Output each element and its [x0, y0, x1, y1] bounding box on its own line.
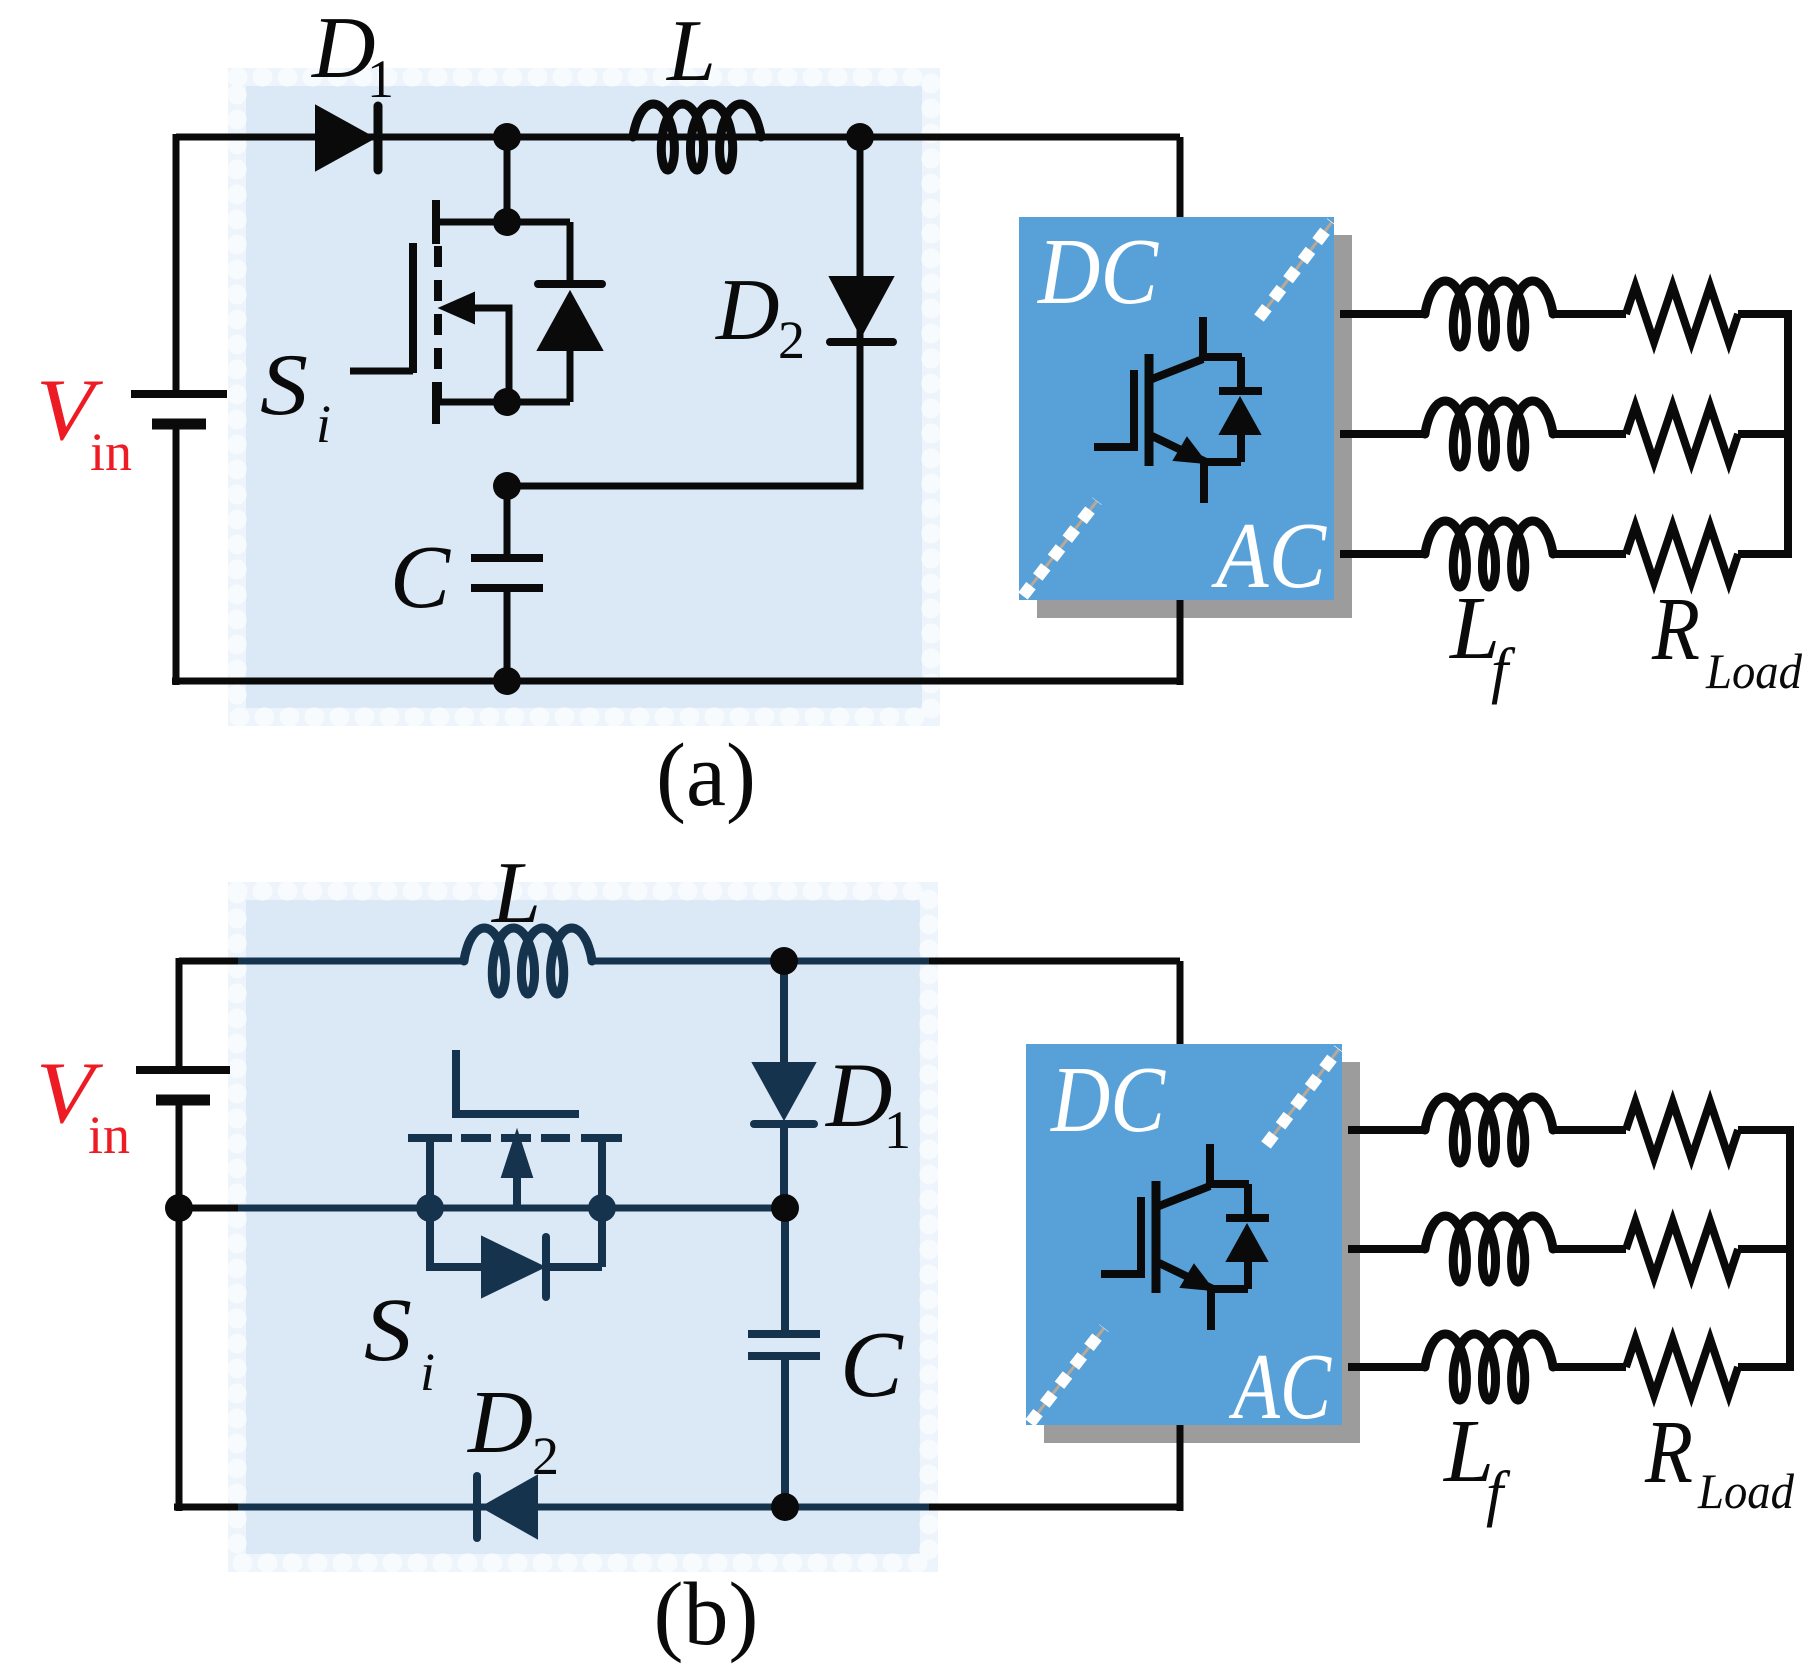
IGBT (a) gate bar: [1130, 370, 1138, 451]
DC/AC block (b): [1026, 1044, 1342, 1425]
wire top rail (a): [176, 134, 1180, 141]
svg-text:D: D: [311, 0, 376, 97]
wire left rail upper (a): [173, 134, 180, 391]
IGBT (a) freewheel diode: [1237, 357, 1245, 388]
node junction Si right contact (b): [588, 1194, 616, 1222]
MOSFET Si (b) body arrow: [502, 1131, 532, 1177]
svg-text:in: in: [90, 422, 132, 482]
svg-text:1: 1: [884, 1100, 911, 1160]
svg-text:D: D: [824, 1044, 892, 1146]
node junctions (a): [493, 123, 521, 151]
svg-text:S: S: [260, 337, 308, 434]
svg-text:(b): (b): [654, 1565, 759, 1664]
DC/AC dashed corner top-right (a): [1259, 222, 1332, 318]
MOSFET Si (a) drain stub: [504, 137, 511, 222]
three-phase wires (b): [1348, 1126, 1425, 1134]
svg-text:R: R: [1644, 1403, 1693, 1502]
svg-text:C: C: [390, 528, 451, 627]
svg-text:in: in: [88, 1105, 130, 1165]
DC/AC block shadow (b): [1044, 1062, 1360, 1443]
svg-text:(a): (a): [656, 726, 756, 825]
wire DC link top (b): [1177, 961, 1184, 1048]
IGBT (b) freewheel diode: [1244, 1184, 1252, 1215]
MOSFET Si (b) dashed channel: [461, 1134, 570, 1142]
svg-text:2: 2: [778, 310, 805, 370]
svg-text:L: L: [490, 845, 541, 942]
wire DC link bottom (a): [1177, 598, 1184, 685]
battery Vin long plate (a): [131, 390, 227, 398]
svg-text:S: S: [364, 1281, 412, 1380]
body diode of Si (a): [567, 222, 574, 286]
MOSFET Si (b) body diode loop: [430, 1208, 484, 1267]
capacitor C (a): [471, 554, 543, 562]
svg-text:Load: Load: [1697, 1463, 1795, 1519]
MOSFET Si (a) dashed channel: [434, 246, 442, 404]
IGBT (b) gate bar: [1137, 1197, 1145, 1278]
load star bus (a): [1784, 310, 1792, 558]
IGBT (b) gate lead: [1101, 1270, 1141, 1278]
diode D2 branch wire (a): [507, 137, 860, 486]
svg-text:1: 1: [367, 49, 394, 109]
battery Vin long plate (b): [136, 1066, 230, 1074]
svg-text:L: L: [665, 3, 716, 100]
DC/AC block shadow (a): [1037, 235, 1352, 618]
IGBT (b) emitter: [1159, 1263, 1211, 1330]
MOSFET Si (a) top link wire: [433, 219, 570, 226]
IGBT (a) body bar: [1145, 354, 1154, 466]
DC/AC dashed corner bottom-left (b): [1030, 1328, 1104, 1423]
MOSFET Si (a) gate bar: [409, 243, 417, 373]
inductor L (a): [633, 104, 761, 170]
svg-text:Load: Load: [1705, 643, 1803, 699]
diode D1 (b): [780, 961, 788, 1066]
svg-text:AC: AC: [1228, 1335, 1332, 1439]
DC/AC dashed corner top-right (b): [1266, 1049, 1339, 1145]
svg-text:i: i: [316, 394, 331, 454]
svg-text:i: i: [420, 1342, 435, 1402]
wire left rail (b): [176, 958, 183, 1067]
IGBT (b) collector lead: [1210, 1144, 1249, 1184]
node junctions (b): [165, 1194, 193, 1222]
node junction Si left contact (b): [416, 1194, 444, 1222]
svg-text:AC: AC: [1211, 504, 1328, 608]
diode D2 (a): [830, 277, 893, 336]
wire node B to capacitor (a): [504, 486, 511, 558]
svg-text:DC: DC: [1049, 1048, 1166, 1152]
capacitor C (b): [781, 1208, 789, 1331]
MOSFET Si (a) body arrow: [440, 293, 474, 323]
IGBT (a) emitter: [1152, 436, 1204, 503]
diode D1 (a): [316, 106, 374, 170]
MOSFET Si (b) left contact: [408, 1134, 452, 1142]
IGBT (a) gate lead: [1094, 443, 1134, 451]
wire bottom rail (b): [174, 1504, 240, 1511]
MOSFET Si (a) bottom link wire: [433, 399, 570, 406]
wire left rail lower (a): [173, 428, 180, 685]
load star bus (b): [1786, 1126, 1794, 1371]
wire top rail (b) black parts: [179, 958, 240, 965]
MOSFET Si (b) gate lead: [456, 1050, 579, 1114]
converter cell shaded box (b): [237, 891, 929, 1563]
wire DC link bottom (b): [1177, 1425, 1184, 1511]
IGBT (a) collector lead: [1203, 317, 1242, 357]
DC/AC block (a): [1019, 217, 1334, 600]
MOSFET Si (b) right contact: [581, 1134, 622, 1142]
wire top rail (b) navy parts: [238, 958, 464, 965]
svg-text:R: R: [1651, 580, 1700, 679]
svg-text:D: D: [466, 1373, 533, 1472]
wire middle rail (b): [179, 1205, 240, 1212]
svg-text:DC: DC: [1036, 220, 1159, 324]
three-phase wires (a): [1340, 310, 1425, 318]
svg-text:D: D: [715, 262, 780, 359]
MOSFET Si (a) source contact bar: [432, 382, 440, 424]
svg-text:2: 2: [532, 1426, 559, 1486]
inductor L (b): [464, 928, 592, 994]
wire bottom rail (a): [172, 678, 1180, 685]
DC/AC dashed corner bottom-left (a): [1023, 501, 1097, 596]
battery Vin short plate (a): [152, 419, 206, 430]
wire DC link top (a): [1177, 137, 1184, 221]
diode D2 (b): [482, 1476, 537, 1538]
IGBT (b) body bar: [1152, 1181, 1161, 1293]
svg-text:C: C: [840, 1313, 904, 1417]
MOSFET Si (a) gate lead: [350, 368, 413, 375]
MOSFET Si (a) drain contact bar: [432, 200, 440, 244]
converter cell shaded box (a): [237, 77, 931, 717]
battery Vin short plate (b): [156, 1095, 210, 1106]
